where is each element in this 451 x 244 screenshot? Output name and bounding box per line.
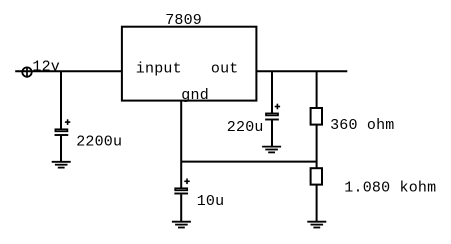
wire: out rail to R1 — [316, 71, 318, 108]
ground (C3) — [172, 222, 191, 228]
wire: gnd pin drop — [180, 101, 182, 162]
capacitor C2 220u — [265, 104, 280, 120]
wire: out rail to C2 — [271, 71, 273, 113]
svg-text:12v: 12v — [32, 58, 60, 75]
wire: C3 to ground — [180, 194, 182, 221]
ground (C2) — [262, 147, 281, 153]
wire: rail to C1 — [60, 71, 62, 129]
wire: +12v input rail — [15, 70, 122, 72]
wire: C2 to ground — [271, 120, 273, 146]
capacitor C3 10u — [174, 179, 189, 194]
svg-text:10u: 10u — [197, 193, 225, 210]
svg-text:220u: 220u — [227, 119, 264, 136]
ground (R2) — [307, 222, 326, 228]
resistor R1 360 ohm — [311, 108, 322, 125]
wire: R1 to R2 — [316, 125, 318, 169]
capacitor C1 2200u — [55, 119, 71, 135]
svg-text:360 ohm: 360 ohm — [330, 117, 394, 134]
ground (C1) — [52, 162, 71, 168]
svg-text:1.080 kohm: 1.080 kohm — [344, 179, 436, 196]
wire: R2 to ground — [316, 185, 318, 222]
IC U1 7809 regulator — [122, 27, 257, 101]
resistor R2 1.080 kohm — [311, 168, 322, 184]
svg-text:input: input — [136, 60, 182, 77]
svg-text:out: out — [211, 60, 239, 77]
terminal: 12v source — [22, 67, 31, 78]
svg-text:gnd: gnd — [181, 87, 209, 104]
wire: out rail — [256, 70, 347, 72]
wire: bottom rail to C3 — [180, 162, 182, 188]
wire: bottom rail — [181, 161, 316, 163]
svg-text:7809: 7809 — [165, 12, 202, 29]
svg-text:2200u: 2200u — [76, 133, 122, 150]
wire: C1 to ground — [60, 136, 62, 162]
